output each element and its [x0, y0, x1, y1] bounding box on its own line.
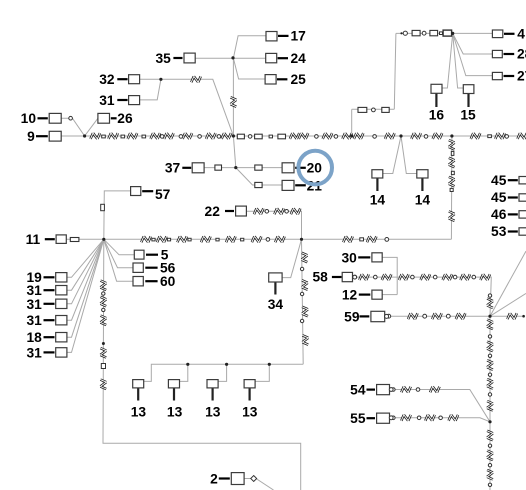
- svg-text:22: 22: [205, 204, 221, 219]
- line symbol x103 drop 5: [100, 380, 106, 389]
- wire node 37 to junction: [204, 167, 236, 169]
- line symbol feeder 2: [108, 133, 117, 139]
- line symbol bus11 2: [157, 236, 166, 242]
- wire hub to node 31 c: [67, 239, 104, 320]
- load box 20: [282, 163, 294, 173]
- dash of node 22 left: [225, 210, 234, 212]
- dash of node 17: [278, 35, 289, 37]
- wire node 2 diagonal: [256, 479, 274, 490]
- load box 25: [265, 75, 276, 84]
- svg-text:20: 20: [307, 161, 323, 176]
- wire node 22 lateral: [246, 211, 301, 239]
- svg-text:18: 18: [26, 330, 42, 345]
- wire node 10 to feeder junction: [61, 118, 84, 136]
- junction 13-bus d: [268, 363, 271, 366]
- svg-text:46: 46: [491, 207, 507, 222]
- line symbol x490 upper 3: [487, 342, 493, 351]
- wire node 30 connector: [382, 257, 397, 294]
- load box 11: [56, 235, 66, 244]
- load box 16: [431, 84, 442, 93]
- junction x490 upper: [488, 315, 491, 318]
- junction node37: [234, 166, 237, 169]
- node circle x490 3: [488, 354, 491, 357]
- node box on y109 lateral 1: [358, 107, 367, 112]
- line symbol x490 lower 3: [487, 470, 493, 479]
- stub of node 14 left: [376, 178, 378, 191]
- highlight circle around node 20: [298, 151, 332, 185]
- wire feeder drop at x452: [450, 136, 453, 239]
- dash of node 2 left: [219, 477, 230, 479]
- wire hub to node 31 a: [67, 239, 104, 290]
- node circle 54-lateral 2: [416, 388, 420, 392]
- svg-text:45: 45: [491, 173, 507, 188]
- transformer box feeder 3: [278, 134, 286, 139]
- dash of node 12 left: [359, 294, 371, 296]
- dash of node 31 b left: [44, 303, 55, 305]
- dash of node 46 left: [508, 213, 518, 215]
- line symbol feeder 10: [299, 133, 308, 139]
- wire 35-junction drop to feeder: [232, 58, 234, 136]
- node circle feeder 2: [179, 135, 183, 139]
- line symbol feeder 14: [385, 133, 394, 139]
- node square bus11 1: [152, 238, 155, 241]
- line symbol bus11 right 2: [367, 236, 376, 242]
- svg-text:2: 2: [210, 472, 218, 487]
- line symbol feeder 11: [323, 133, 332, 139]
- node circle top-right chain 2: [422, 31, 426, 35]
- line symbol 58-lateral 5: [443, 274, 452, 280]
- line symbol x302 chain 1: [302, 253, 308, 262]
- line symbol x452 drop 2: [449, 158, 455, 167]
- line symbol feeder 7: [206, 133, 215, 139]
- stub of node 13 d: [249, 388, 251, 401]
- dash of node 4: [504, 33, 515, 35]
- svg-text:45: 45: [491, 190, 507, 205]
- dash of node 31 top left: [117, 99, 127, 101]
- wire top-right lateral chain: [396, 32, 453, 34]
- load box 13 d: [244, 380, 255, 388]
- load box 37: [192, 163, 204, 173]
- node circle x103 1: [102, 292, 105, 295]
- dash of node 19 left: [44, 276, 55, 278]
- line symbol on 35 drop: [231, 97, 237, 106]
- node circle 54-lateral 1: [392, 388, 396, 392]
- line symbol x490 upper 6: [487, 401, 493, 410]
- load box 32: [129, 75, 140, 84]
- connector circle of node 58: [353, 275, 357, 279]
- svg-text:16: 16: [429, 108, 445, 123]
- wire junction to node 16: [442, 33, 453, 88]
- svg-text:14: 14: [370, 193, 386, 208]
- wire branch to node 21: [236, 168, 282, 185]
- wire bus of 13 nodes: [144, 364, 304, 381]
- svg-text:31: 31: [26, 297, 42, 312]
- node circle bus11: [266, 238, 270, 242]
- line symbol x452 drop 3: [449, 177, 455, 186]
- wire node 35 to node 24 lateral: [195, 57, 266, 59]
- load box 60: [133, 277, 143, 286]
- dash of node 31 d left: [44, 351, 55, 353]
- dash of node 53 left: [508, 230, 518, 232]
- node circle after node 10: [69, 116, 73, 120]
- node circle 59-lateral 3: [446, 314, 450, 318]
- wire junction to node 4: [453, 32, 493, 34]
- node circle x490 7: [488, 464, 491, 467]
- node circle 59-lateral 2: [423, 314, 427, 318]
- load box 57: [131, 187, 141, 196]
- wire node 54 lateral: [389, 390, 490, 422]
- line symbol x490 upper 5: [487, 379, 493, 388]
- dash of node 59 left: [360, 315, 370, 317]
- junction bus11 x301: [300, 238, 303, 241]
- line symbol feeder 13: [354, 133, 363, 139]
- line symbol x490 lower 1: [487, 431, 493, 440]
- dash of node 21: [295, 184, 306, 186]
- wire node 32 lateral: [139, 79, 233, 136]
- line symbol x452 drop 1: [449, 140, 455, 149]
- dash of node 18 left: [44, 336, 55, 338]
- load box 28: [492, 50, 502, 57]
- node square feeder c: [142, 135, 146, 138]
- line symbol 55-lateral 3: [449, 415, 458, 421]
- dash of node 60: [145, 280, 157, 282]
- line symbol bus11 5: [226, 236, 235, 242]
- dash of node 58 left: [332, 276, 342, 278]
- node square x452 3: [450, 188, 453, 191]
- load box 30: [372, 253, 382, 262]
- svg-text:35: 35: [155, 51, 171, 66]
- wire riser to node 13 c: [218, 364, 226, 381]
- svg-text:57: 57: [155, 187, 171, 202]
- line symbol feeder 5: [164, 133, 173, 139]
- dash of node 27: [504, 75, 515, 77]
- line symbol bus11 3: [177, 236, 186, 242]
- dash of node 32 left: [117, 78, 127, 80]
- line symbol 59-lateral 3: [456, 313, 465, 319]
- node circle top-right chain 1: [403, 31, 407, 35]
- node box before node 20: [255, 165, 262, 170]
- load box 17: [266, 32, 277, 41]
- node square on 57 riser: [101, 204, 105, 210]
- load box 45 lower: [519, 194, 526, 201]
- wire node 59 lateral: [385, 315, 524, 317]
- load box 58: [342, 272, 352, 281]
- wire node 55 lateral: [389, 418, 490, 422]
- node circle feeder 7: [334, 135, 338, 139]
- connector circle of node 59: [385, 314, 389, 318]
- node box on top-right chain 2: [430, 30, 438, 35]
- load box 26: [98, 113, 110, 123]
- load box 54: [377, 385, 390, 395]
- node circle 58-lateral 6: [472, 275, 476, 279]
- load box 31 d: [56, 348, 67, 357]
- svg-text:4: 4: [517, 27, 525, 42]
- line symbol on 32 lateral: [191, 76, 200, 82]
- node circle 58-lateral 1: [353, 275, 357, 279]
- node square bus11 3: [188, 238, 191, 241]
- node circle feeder 6: [315, 135, 319, 139]
- line symbol x103 drop 1: [100, 281, 106, 290]
- svg-text:32: 32: [99, 72, 115, 87]
- load box 59: [371, 311, 385, 321]
- node circle x302 3: [300, 319, 303, 322]
- line symbol feeder 3: [128, 133, 137, 139]
- svg-text:10: 10: [21, 111, 37, 126]
- node circle on y109 lateral: [372, 108, 376, 112]
- svg-text:31: 31: [26, 313, 42, 328]
- node circle 55-lateral 2: [417, 416, 421, 420]
- node circle 22-lateral 2: [285, 210, 289, 214]
- dash of node 10 left: [38, 117, 48, 119]
- svg-text:30: 30: [341, 251, 357, 266]
- node box on bus11 at hub: [70, 238, 79, 242]
- node circle x302 2: [300, 292, 303, 295]
- wire hub to node 31 b: [67, 239, 104, 303]
- line symbol feeder 4: [151, 133, 160, 139]
- node box on top-right chain 3: [443, 30, 452, 36]
- load box 2: [231, 473, 244, 485]
- wire node 12 connector: [382, 294, 397, 296]
- wire node 2 tail: [244, 478, 251, 480]
- line symbol 22-lateral 1: [254, 208, 263, 214]
- load box 9: [49, 131, 61, 141]
- line symbol feeder 8: [222, 133, 231, 139]
- line symbol 54-lateral 2: [430, 387, 439, 393]
- line symbol 58-lateral 2: [382, 274, 391, 280]
- line symbol x490 upper 2: [487, 320, 493, 329]
- load box 5: [134, 250, 144, 259]
- dash of node 25: [277, 78, 287, 80]
- line symbol x490 lower 2: [487, 451, 493, 460]
- load box 12: [372, 290, 382, 299]
- line symbol bus11 6: [252, 236, 261, 242]
- line symbol bus11 1: [141, 236, 150, 242]
- load box 31 a: [56, 286, 67, 295]
- line symbol feeder 19: [518, 133, 526, 139]
- dash of node 56: [145, 267, 157, 269]
- wire riser to node 13 b: [180, 364, 188, 381]
- line symbol x452 drop 4: [449, 211, 455, 220]
- line symbol x302 chain 3: [302, 307, 308, 316]
- svg-text:58: 58: [312, 270, 328, 285]
- line symbol 22-lateral 3: [291, 208, 300, 214]
- line symbol 59-lateral 4: [507, 313, 516, 319]
- stub of node 14 right: [421, 178, 423, 191]
- svg-text:60: 60: [160, 274, 176, 289]
- wire node 58 lateral: [354, 277, 492, 316]
- svg-text:11: 11: [26, 232, 41, 247]
- line symbol x103 drop 3: [100, 316, 106, 325]
- junction feeder start: [83, 134, 86, 137]
- load box 27: [492, 72, 502, 79]
- node circle feeder 5: [248, 135, 252, 139]
- wire top-right riser: [394, 33, 396, 109]
- node circle x490 2: [488, 335, 491, 338]
- line symbol 22-lateral 2: [274, 208, 283, 214]
- node circle 59-lateral 1: [387, 314, 391, 318]
- svg-text:13: 13: [167, 405, 183, 420]
- load box 34: [269, 273, 282, 282]
- node circle 58-lateral 5: [453, 275, 457, 279]
- line symbol 58-lateral 4: [421, 274, 430, 280]
- node box before node 21: [255, 182, 262, 187]
- dash of node 45 upper left: [508, 179, 518, 181]
- node circle feeder 9: [424, 135, 428, 139]
- junction 13-bus c: [225, 363, 228, 366]
- stub of node 34: [274, 282, 276, 294]
- node square bus11 right segment: [360, 238, 364, 241]
- load box 46: [519, 211, 526, 218]
- load box 18: [56, 333, 67, 342]
- line symbol bus11 4: [201, 236, 210, 242]
- dash of node 28: [504, 53, 515, 55]
- wire hub to node 5: [104, 239, 135, 255]
- svg-text:53: 53: [491, 224, 507, 239]
- node box after node 37: [215, 165, 222, 170]
- junction 32 lateral: [159, 78, 162, 81]
- dash of node 37 left: [182, 167, 191, 169]
- node circle feeder 4: [217, 135, 221, 139]
- svg-text:17: 17: [291, 29, 307, 44]
- junction x490 lower: [488, 420, 491, 423]
- wire junction to node 15: [453, 33, 464, 88]
- node circle 22-lateral 1: [265, 210, 269, 214]
- junction node35 lateral: [231, 56, 234, 59]
- wire junction to node 20: [236, 167, 282, 169]
- wire chain x302 down to 13-bus: [302, 239, 304, 364]
- wire feeder branch to node 14 left: [383, 136, 401, 174]
- dash of node 24: [278, 57, 288, 59]
- wire chain x490 down: [489, 316, 491, 490]
- node circle x103 2: [102, 308, 105, 311]
- wire main feeder bus: [61, 135, 525, 137]
- line symbol x490 upper 4: [487, 360, 493, 369]
- load box 45 upper: [519, 177, 526, 184]
- tip dot top-right chain: [400, 32, 402, 34]
- wire hub to node 31 d: [67, 239, 104, 352]
- dash of node 54 left: [367, 389, 376, 391]
- node square feeder b: [121, 135, 125, 138]
- line symbol feeder 1: [91, 133, 100, 139]
- node square feeder a: [102, 135, 106, 138]
- load box 35: [184, 53, 195, 63]
- line symbol 59-lateral 2: [432, 313, 441, 319]
- load box 19: [56, 273, 67, 282]
- stub of node 13 a: [137, 388, 139, 401]
- load box 56: [133, 263, 143, 272]
- dash of node 30 left: [358, 256, 370, 258]
- dash of node 57: [142, 190, 153, 192]
- wire hub to node 19: [67, 239, 104, 277]
- stub of node 13 b: [173, 388, 175, 401]
- svg-text:31: 31: [99, 93, 115, 108]
- svg-text:13: 13: [131, 405, 147, 420]
- node circle feeder 1: [160, 135, 164, 139]
- junction on x103 drop: [102, 342, 105, 345]
- load box 4: [492, 30, 502, 38]
- line symbol x103 drop 2: [100, 297, 106, 306]
- wire lateral at y109: [352, 108, 395, 110]
- transformer box feeder 1: [237, 134, 244, 139]
- load box 21: [282, 180, 294, 190]
- svg-text:15: 15: [460, 108, 476, 123]
- dash of node 55 left: [367, 417, 376, 419]
- load box 55: [377, 413, 390, 423]
- line symbol 58-lateral 1: [359, 274, 368, 280]
- load box 31 c: [56, 316, 67, 325]
- node square feeder d: [488, 135, 492, 138]
- node circle x490 5: [488, 393, 491, 396]
- line symbol feeder 17: [471, 133, 480, 139]
- transformer box feeder 2: [255, 134, 263, 139]
- load box 15: [463, 85, 474, 94]
- line symbol 55-lateral 1: [401, 415, 410, 421]
- dash of node 35 left: [173, 57, 182, 59]
- node circle 55-lateral 3: [439, 416, 443, 420]
- stub of node 15: [467, 94, 469, 107]
- line symbol x490 upper 1: [487, 299, 493, 308]
- line symbol 59-lateral 1: [408, 313, 417, 319]
- svg-text:12: 12: [342, 288, 358, 303]
- wire hub to node 18: [67, 239, 104, 337]
- connector circle of node 54: [389, 388, 393, 392]
- svg-text:24: 24: [291, 51, 307, 66]
- wire riser to node 13 d: [255, 364, 269, 381]
- junction feeder x452: [450, 134, 453, 137]
- wire diagonal to lower right edge: [490, 293, 526, 316]
- load box 13 b: [168, 380, 179, 388]
- node circle x302 1: [300, 267, 303, 270]
- line symbol bus11 7: [275, 236, 284, 242]
- node circle feeder 8: [373, 135, 377, 139]
- node circle feeder 10: [505, 135, 509, 139]
- dash of node 9 left: [36, 135, 48, 137]
- node square x452 1: [451, 151, 454, 155]
- node circle bus11 right: [385, 238, 389, 242]
- svg-text:34: 34: [268, 297, 284, 312]
- load box 14 right: [417, 170, 428, 178]
- load box 22: [236, 206, 247, 216]
- dash of node 26: [111, 117, 117, 119]
- svg-text:27: 27: [517, 69, 526, 84]
- node box on y109 lateral 2: [382, 107, 389, 112]
- line symbol feeder 6: [183, 133, 192, 139]
- line symbol x302 chain 2: [302, 280, 308, 289]
- line symbol bus11 right 1: [343, 236, 352, 242]
- load box 24: [266, 53, 277, 62]
- svg-text:31: 31: [26, 346, 42, 361]
- wire bus 11 lateral: [66, 238, 451, 240]
- svg-text:28: 28: [517, 47, 526, 62]
- line symbol feeder 16: [433, 133, 442, 139]
- wire diagonal to upper right edge: [490, 251, 526, 316]
- junction hub: [102, 238, 105, 241]
- line symbol feeder 12: [343, 133, 352, 139]
- junction 13-bus b: [186, 363, 189, 366]
- wire drop to feeder at x352: [351, 109, 353, 136]
- wire branch to node 17: [233, 36, 266, 58]
- line symbol 58-lateral 6: [461, 274, 470, 280]
- line symbol feeder 15: [411, 133, 420, 139]
- dash of node 20: [295, 167, 306, 169]
- node square bus11 5: [241, 238, 244, 241]
- wire hub to node 60: [104, 239, 133, 281]
- wire branch to node 34: [282, 239, 301, 277]
- node square on x103 drop: [101, 364, 105, 369]
- node circle 58-lateral 2: [374, 275, 378, 279]
- line symbol 58-lateral 3: [399, 274, 408, 280]
- connector circle of node 55: [389, 416, 393, 420]
